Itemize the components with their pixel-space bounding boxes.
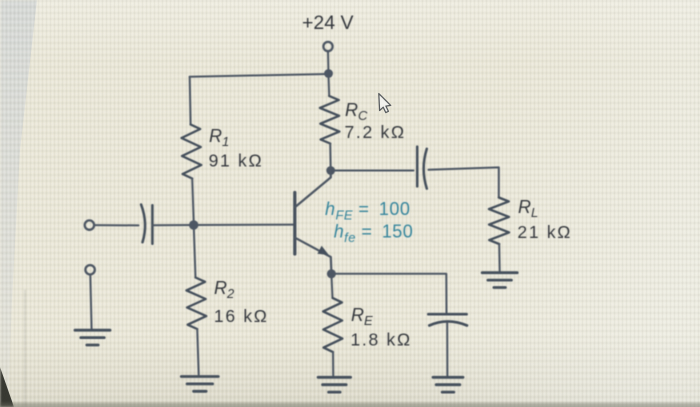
wire RE bottom lead — [332, 352, 334, 375]
capacitor input coupling (curved plate) — [141, 205, 145, 243]
wire RL bottom lead — [498, 244, 501, 271]
wire R2 top lead — [194, 225, 196, 278]
wire R2 bottom lead — [197, 329, 199, 375]
node emitter junction — [327, 269, 336, 278]
wire supply terminal to VCC junction — [327, 51, 329, 70]
svg-text:+24 V: +24 V — [302, 12, 354, 34]
resistor RC — [320, 96, 340, 144]
wire input terminal to coupling cap — [94, 224, 138, 226]
wire VCC rail to R1 branch — [190, 74, 329, 77]
resistor RL — [489, 198, 509, 245]
svg-text:91 kΩ: 91 kΩ — [209, 151, 264, 171]
wire bypass cap to ground — [446, 323, 448, 376]
capacitor output coupling (curved plate) — [424, 149, 427, 189]
svg-text:16 kΩ: 16 kΩ — [214, 306, 269, 326]
svg-text:1.8 kΩ: 1.8 kΩ — [351, 330, 412, 350]
svg-text:7.2 kΩ: 7.2 kΩ — [345, 122, 406, 142]
wire collector node to output cap — [331, 170, 414, 172]
wire coupling cap to base node — [152, 224, 193, 226]
wire RC bottom lead to collector node — [329, 144, 332, 171]
wire R1 bottom lead to base node — [192, 179, 194, 223]
wire lower terminal to ground — [90, 275, 91, 329]
wire R1 top lead — [189, 77, 192, 125]
node base junction — [189, 220, 198, 229]
capacitor bypass (curved plate) — [429, 321, 467, 325]
capacitor bypass (flat plate) — [428, 313, 466, 316]
node collector junction — [326, 166, 335, 175]
node input terminal (signal) — [85, 220, 94, 229]
node +24V supply terminal — [323, 42, 332, 51]
mouse cursor — [379, 94, 391, 113]
resistor R2 — [186, 278, 206, 330]
ground RL — [482, 273, 517, 288]
capacitor input coupling (flat plate) — [151, 205, 154, 243]
transistor Q1 emitter arrow — [317, 246, 328, 255]
transistor Q1 base bar — [293, 193, 296, 255]
wire output cap to RL corner — [429, 167, 499, 197]
ground input — [75, 330, 110, 345]
resistor R1 — [182, 125, 202, 179]
wire emitter node to bypass cap branch — [331, 274, 446, 313]
capacitor output coupling (flat plate) — [416, 147, 419, 187]
svg-text:21 kΩ: 21 kΩ — [517, 222, 572, 242]
node input lower terminal — [85, 265, 94, 274]
ground R2 — [181, 377, 218, 392]
wire RC top lead — [328, 76, 331, 96]
transistor Q1 emitter lead — [295, 238, 331, 273]
wire RE top lead — [331, 274, 332, 298]
transistor Q1 collector lead — [295, 171, 331, 207]
ground RE — [318, 377, 351, 392]
resistor RE — [323, 298, 342, 352]
node VCC junction — [324, 69, 333, 78]
wire base node to transistor base — [194, 224, 295, 226]
ground bypass — [433, 377, 463, 392]
